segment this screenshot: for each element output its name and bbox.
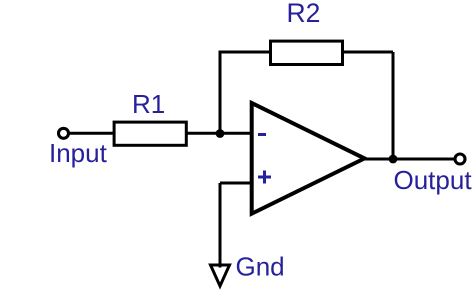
svg-text:Output: Output bbox=[394, 165, 473, 195]
svg-text:Gnd: Gnd bbox=[236, 252, 285, 282]
svg-text:R2: R2 bbox=[287, 0, 321, 28]
svg-text:Input: Input bbox=[49, 138, 108, 168]
svg-text:R1: R1 bbox=[132, 89, 165, 119]
